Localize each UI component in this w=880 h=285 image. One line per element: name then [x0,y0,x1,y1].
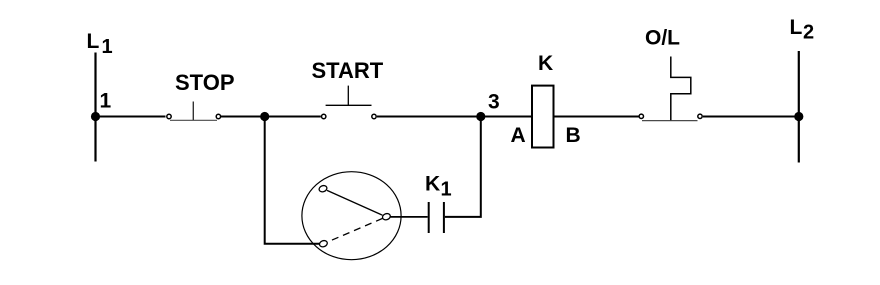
contactor mechanism circle [302,172,401,260]
mechanism terminal right [382,213,392,221]
svg-text:L: L [790,16,803,39]
terminal label A [511,124,526,147]
svg-text:A: A [511,124,526,147]
label K1 [425,172,452,200]
pushbutton START (NO) [322,86,377,119]
junction node after STOP [260,112,269,121]
label O/L [645,26,680,49]
auxiliary contact K1 [429,202,444,233]
mechanism dashed link [328,218,383,242]
wire L1 to STOP [96,116,166,118]
junction node L2 [794,112,803,121]
overload heater element [671,57,691,121]
label START [312,58,384,83]
svg-text:3: 3 [488,91,500,114]
terminal label B [566,124,581,147]
svg-text:2: 2 [803,22,814,44]
junction node 3 [476,112,485,121]
svg-text:1: 1 [100,90,112,113]
svg-text:1: 1 [441,178,452,200]
svg-text:K: K [425,172,440,195]
label STOP [175,70,235,95]
wire junction to START [265,116,321,118]
node label 1 [100,90,112,113]
svg-text:STOP: STOP [175,70,235,95]
wire STOP to junction [221,116,265,118]
junction node 1 [91,112,100,121]
svg-text:L: L [87,30,100,53]
svg-text:1: 1 [102,36,113,58]
node label 3 [488,91,500,114]
svg-text:B: B [566,124,581,147]
coil K [532,86,554,148]
svg-text:START: START [312,58,384,83]
mechanism terminal bottom-left [319,240,329,248]
wire O/L to L2 [703,116,799,118]
mechanism terminal top-left [318,185,328,193]
label L2 [790,16,815,44]
wire branch down-left to contactor mechanism [265,117,320,244]
wire START to node 3 [377,116,481,118]
wire mechanism to contact K1 [391,216,428,218]
label L1 [87,30,113,58]
overload contact O/L [639,114,702,120]
wire K1 up to node 3 [445,117,481,217]
svg-text:K: K [538,52,553,75]
wire node 3 to coil K [481,116,532,118]
svg-text:O/L: O/L [645,26,680,49]
pushbutton STOP (NC) [167,102,221,121]
power rail L1 [94,53,96,162]
power rail L2 [798,51,800,163]
wire coil K to O/L [554,116,639,118]
mechanism armature link [327,190,383,215]
label K [538,52,553,75]
